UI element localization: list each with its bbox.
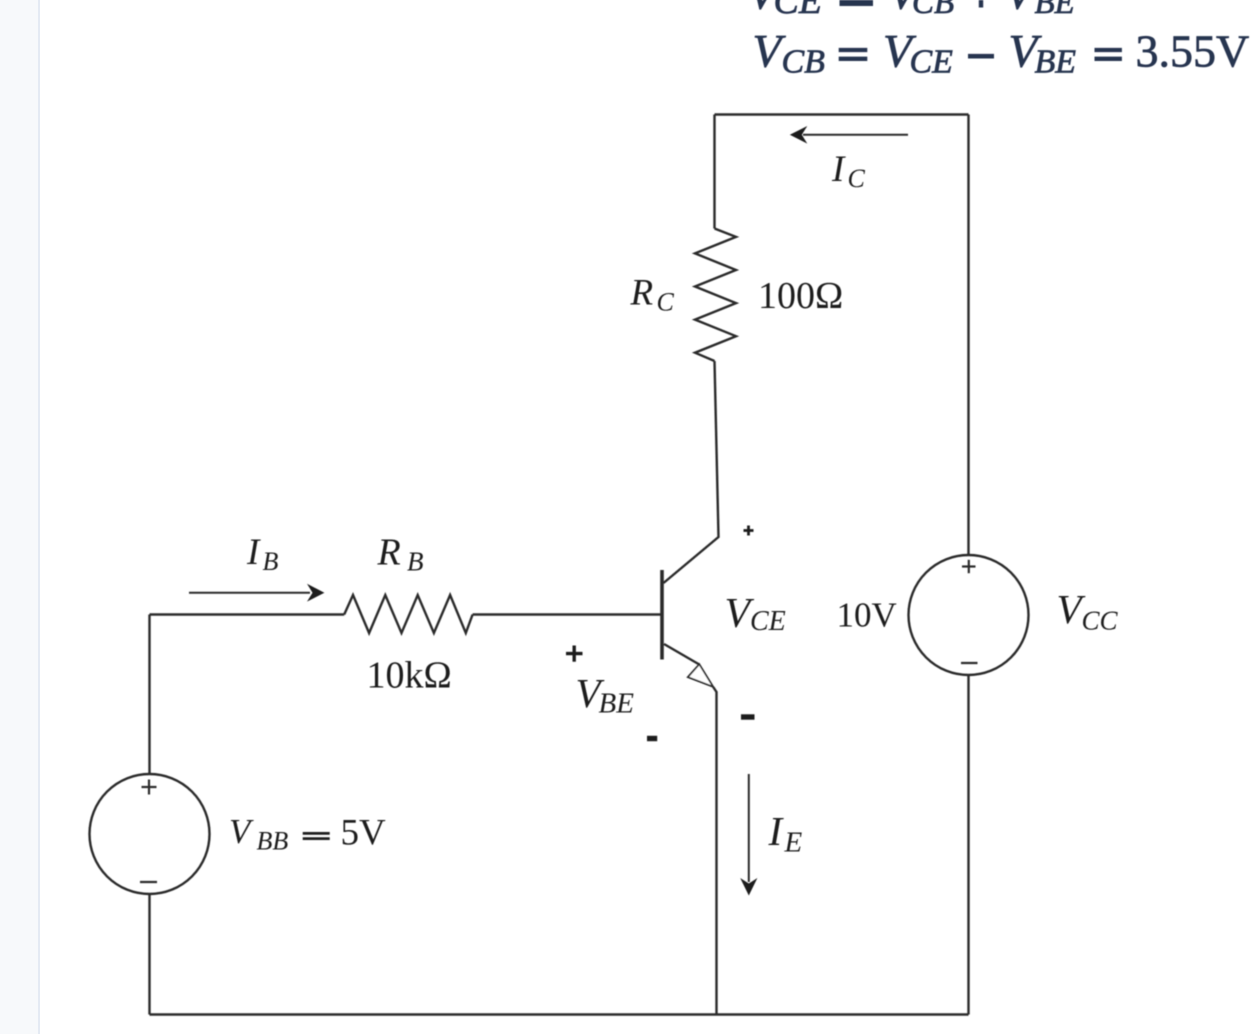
- transistor Q1 emitter arrowhead (open): [688, 664, 713, 687]
- wire collector (Rc bottom to transistor): [664, 361, 719, 583]
- VBB plus sign: [142, 780, 157, 795]
- equation line 1 plus vertical stub: [979, 0, 983, 8]
- svg-text:10kΩ: 10kΩ: [367, 655, 452, 697]
- polarity minus (emitter, VCE): [741, 714, 755, 719]
- svg-text:V: V: [229, 812, 254, 851]
- svg-text:10V: 10V: [837, 596, 897, 635]
- svg-text:BE: BE: [1035, 43, 1077, 80]
- svg-text:C: C: [657, 288, 675, 317]
- resistor RB zigzag: [344, 595, 472, 633]
- wire top horizontal: [715, 113, 969, 115]
- svg-text:5V: 5V: [341, 813, 387, 854]
- arrow IC: [803, 134, 908, 136]
- equation line 2 minus sign: [968, 54, 994, 59]
- svg-text:CB: CB: [782, 43, 826, 80]
- arrow IB: [189, 592, 310, 594]
- svg-text:BB: BB: [257, 827, 289, 856]
- svg-text:CC: CC: [1082, 606, 1119, 636]
- transistor Q1 base bar: [660, 570, 664, 660]
- polarity minus (under VBE): [647, 736, 657, 741]
- svg-text:100Ω: 100Ω: [758, 275, 843, 317]
- svg-text:I: I: [246, 532, 261, 573]
- VCC minus sign: [961, 662, 978, 664]
- VBB minus sign: [140, 881, 157, 883]
- wire left vertical lower: [148, 894, 150, 1015]
- svg-text:C: C: [848, 164, 866, 193]
- svg-text:B: B: [263, 547, 279, 576]
- wire bottom horizontal: [150, 1013, 969, 1015]
- wire top-left vertical (collector branch to Rc): [713, 115, 715, 229]
- svg-text:CE: CE: [750, 606, 786, 637]
- equation line 2 equals sign 1: [839, 50, 868, 59]
- wire base left segment: [150, 613, 345, 615]
- svg-text:BE: BE: [1035, 0, 1075, 21]
- svg-text:V: V: [1005, 0, 1039, 20]
- svg-text:B: B: [407, 547, 424, 577]
- svg-text:CE: CE: [910, 43, 954, 80]
- wire right vertical lower: [967, 675, 969, 1015]
- svg-text:BE: BE: [599, 688, 635, 720]
- VCC plus sign: [962, 560, 976, 573]
- equation line 1 (clipped at top): V_CE = V_CB + V_BE: [748, 0, 1075, 22]
- wire emitter lead from base bar: [664, 644, 699, 665]
- svg-text:R: R: [630, 273, 654, 314]
- wire emitter vertical down to bottom: [713, 687, 716, 1015]
- polarity plus (collector, VCE): [744, 526, 754, 536]
- svg-text:I: I: [768, 808, 785, 854]
- voltage source VBB circle: [90, 774, 210, 894]
- equation line 2: V_CB = V_CE - V_BE = 3.55V: [753, 25, 1250, 80]
- svg-text:E: E: [784, 827, 803, 859]
- svg-text:R: R: [377, 532, 401, 574]
- wire left vertical upper: [148, 615, 150, 775]
- equation line 2 equals sign 2: [1095, 50, 1122, 59]
- svg-text:I: I: [831, 149, 846, 190]
- voltage source VCC circle: [909, 555, 1029, 675]
- wire right vertical upper: [967, 115, 969, 556]
- svg-text:CE: CE: [774, 0, 823, 22]
- arrow IE: [748, 774, 750, 882]
- equation line 1 equals lower bar: [840, 0, 874, 6]
- svg-text:3.55V: 3.55V: [1136, 25, 1250, 76]
- polarity plus (base, VBE): [566, 646, 583, 662]
- svg-text:CB: CB: [912, 0, 954, 21]
- wire base right segment: [473, 613, 662, 615]
- left sidebar strip: [0, 0, 40, 1034]
- resistor RC zigzag: [695, 229, 736, 362]
